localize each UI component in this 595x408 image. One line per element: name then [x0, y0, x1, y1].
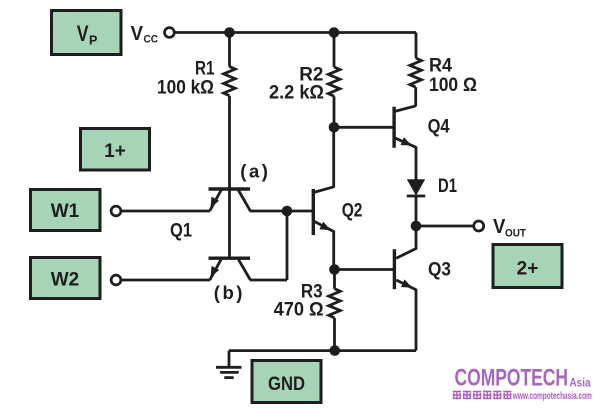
box W1 — [31, 190, 101, 231]
svg-text:V: V — [493, 215, 506, 238]
resistor R1 zigzag — [224, 67, 236, 96]
junction VOUT node — [411, 221, 422, 232]
transistor Q3 bar — [393, 249, 396, 289]
svg-text:CC: CC — [144, 34, 159, 46]
transistor Q1b bar — [209, 257, 251, 260]
wire R1 column — [228, 33, 231, 257]
ground stub — [228, 351, 231, 367]
svg-text:470 Ω: 470 Ω — [274, 300, 324, 321]
svg-text:R4: R4 — [429, 55, 452, 76]
transistor Q1a emitter — [210, 190, 221, 211]
transistor Q2 bar — [312, 189, 315, 235]
svg-text:1+: 1+ — [104, 141, 126, 162]
svg-text:R1: R1 — [195, 59, 215, 80]
box W2 — [31, 258, 101, 299]
svg-text:www.compotechasia.com: www.compotechasia.com — [512, 391, 592, 402]
svg-text:Asia: Asia — [570, 377, 592, 389]
ground bar 1 — [216, 366, 242, 369]
box VP — [52, 11, 122, 55]
svg-text:P: P — [89, 34, 97, 48]
junction Q4 base node — [329, 122, 340, 133]
svg-text:2+: 2+ — [517, 259, 539, 280]
wire VOUT — [421, 225, 474, 228]
resistor R2 zigzag — [328, 67, 340, 96]
transistor Q4 collector — [394, 106, 416, 112]
wire W1 to Q1a emitter — [121, 210, 210, 213]
wire R2 column — [333, 33, 336, 128]
svg-text:W2: W2 — [51, 270, 80, 291]
wire R4 feed — [414, 33, 417, 107]
svg-text:100 Ω: 100 Ω — [429, 75, 477, 96]
svg-text:Q3: Q3 — [428, 260, 451, 281]
junction R3 bottom node — [330, 345, 341, 356]
terminal VCC — [165, 28, 175, 38]
box GND — [252, 361, 321, 403]
diode D1 cathode bar — [407, 195, 425, 198]
wire W2 to Q1b emitter — [121, 279, 210, 282]
junction VCC-R1 — [224, 27, 235, 38]
wire Q4 base — [334, 126, 393, 129]
transistor Q1a bar — [209, 187, 251, 190]
transistor Q3 emitter — [396, 280, 416, 290]
svg-text:W1: W1 — [51, 201, 80, 222]
resistor R3 zigzag — [329, 289, 341, 318]
label VOUT — [493, 215, 526, 240]
arrow Q1a emitter — [210, 197, 219, 208]
box 2+ — [493, 245, 562, 288]
transistor Q2 emitter — [314, 221, 334, 232]
logo CJK characters — [453, 391, 512, 400]
arrow Q3 emitter — [401, 279, 412, 287]
wire R3 column — [333, 270, 336, 351]
wire Q2 base — [287, 210, 312, 213]
junction Q2 base node — [282, 206, 293, 217]
wire D1 to VOUT node — [415, 196, 418, 226]
svg-text:Q2: Q2 — [342, 201, 363, 222]
label VCC — [131, 22, 158, 46]
svg-text:D1: D1 — [438, 176, 457, 197]
terminal W1 — [111, 206, 121, 216]
svg-text:V: V — [131, 22, 144, 45]
ground bar 3 — [224, 376, 233, 379]
svg-text:Q4: Q4 — [428, 116, 450, 137]
junction Q2 emitter / R3 node — [329, 264, 340, 275]
transistor Q1a collector — [238, 190, 287, 211]
svg-text:100 kΩ: 100 kΩ — [157, 78, 214, 99]
wire Q2 emitter to R3 node — [332, 231, 335, 270]
wire Q3 emitter down — [415, 289, 418, 351]
box 1+ — [81, 129, 150, 171]
svg-text:GND: GND — [268, 374, 305, 395]
junction VCC-R2 — [329, 27, 340, 38]
transistor Q1b collector — [238, 211, 287, 280]
svg-text:COMPOTECH: COMPOTECH — [455, 364, 569, 391]
ground bar 2 — [220, 371, 239, 374]
svg-text:V: V — [77, 21, 89, 46]
transistor Q4 emitter — [394, 138, 416, 148]
terminal VOUT — [474, 221, 484, 231]
svg-text:Q1: Q1 — [170, 220, 192, 241]
wire Q4 emitter to D1 — [415, 147, 418, 180]
wire bottom rail — [229, 349, 416, 352]
svg-text:(a): (a) — [240, 161, 270, 182]
svg-text:OUT: OUT — [505, 228, 526, 240]
arrow Q2 emitter — [319, 222, 330, 231]
transistor Q4 bar — [392, 107, 395, 148]
arrow Q1b emitter — [211, 266, 220, 277]
resistor R4 zigzag — [410, 58, 422, 87]
terminal W2 — [111, 275, 121, 285]
arrow Q4 emitter — [401, 137, 412, 145]
svg-text:2.2 kΩ: 2.2 kΩ — [269, 83, 324, 104]
transistor Q3 collector — [396, 226, 416, 258]
transistor Q2 collector — [314, 127, 334, 192]
svg-text:(b): (b) — [214, 282, 245, 303]
wire VCC rail — [174, 31, 416, 34]
diode D1 triangle — [407, 179, 425, 195]
transistor Q1b emitter — [210, 259, 221, 280]
wire Q3 base — [335, 268, 394, 271]
